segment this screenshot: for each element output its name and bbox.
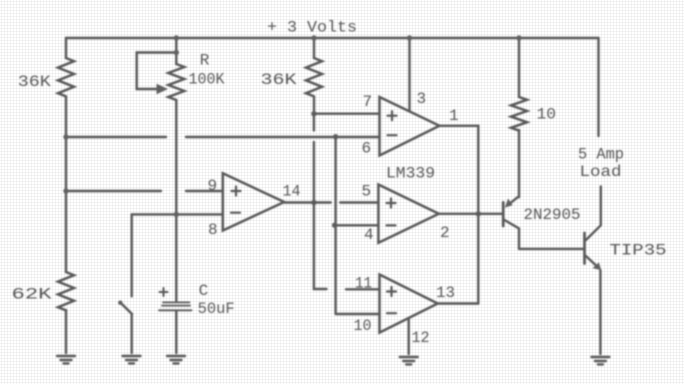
node junction pot-top (174, 35, 179, 40)
svg-text:11: 11 (355, 275, 372, 293)
wire pot top (175, 38, 177, 64)
svg-text:+ 3 Volts: + 3 Volts (267, 19, 357, 37)
svg-text:10: 10 (537, 106, 557, 124)
svg-text:C: C (199, 282, 209, 300)
wire +3V top rail (66, 37, 599, 39)
node junction pin3 rail (407, 35, 412, 40)
wire left rail bottom (65, 310, 67, 353)
transistor Q2 TIP35 base bar (583, 233, 586, 264)
wire vertical 314 hop over pin6 (313, 114, 315, 203)
comparator U2C LM339 (pins 11,10,13,12) (380, 275, 438, 333)
node junction left-rail pin9 (63, 188, 68, 193)
switch S1 contact blob (118, 301, 122, 305)
node junction 36K2 rail (311, 35, 316, 40)
wire 10ohm top (518, 38, 520, 97)
svg-text:5: 5 (362, 183, 372, 201)
node junction pin6 tap (333, 134, 338, 139)
wire 36K2 top (313, 38, 315, 58)
transistor Q1 emitter arrowhead (505, 199, 513, 208)
wire out14 to pin5 (284, 201, 378, 203)
wire out13 (438, 302, 479, 304)
ground left (57, 356, 75, 363)
svg-text:1: 1 (449, 107, 459, 125)
node junction pot-loop (174, 50, 179, 55)
capacitor polarity plus (160, 288, 168, 296)
wire pin11 feed (346, 288, 380, 290)
svg-text:R: R (200, 52, 210, 70)
svg-text:12: 12 (412, 329, 430, 347)
wire load upper (597, 38, 599, 136)
comparator U2B LM339 (pins 5,4,2) (378, 185, 438, 243)
comparator C plus sign (387, 287, 396, 296)
pot wiper arrow (157, 84, 169, 95)
op-amp U1 plus sign (232, 187, 241, 196)
comparator A plus sign (388, 111, 397, 120)
node junction outputs (476, 211, 481, 216)
wire vertical 314 to pin11 corner (314, 203, 327, 290)
wire 10ohm to emitter (518, 130, 520, 197)
resistor R_36K left (58, 58, 74, 96)
ground pin12 (400, 357, 418, 364)
wire Q2 emitter down (599, 270, 601, 354)
svg-text:100K: 100K (189, 71, 225, 89)
ground TIP35 (591, 357, 609, 364)
svg-text:2: 2 (440, 224, 450, 242)
svg-text:TIP35: TIP35 (610, 242, 667, 260)
op-amp U1 minus sign (231, 212, 240, 214)
comparator A minus sign (388, 134, 397, 136)
ground cap (167, 356, 185, 363)
wire pot bottom to cap (175, 100, 177, 301)
transistor Q2 collector lead (586, 187, 601, 241)
svg-text:9: 9 (208, 177, 218, 195)
wire switch lower (130, 314, 132, 353)
wire left rail middle (65, 97, 67, 272)
ground switch (123, 356, 141, 363)
capacitor C 50uF plates (159, 302, 192, 310)
svg-text:7: 7 (363, 93, 373, 111)
resistor R_62K (58, 272, 74, 310)
svg-text:36K: 36K (18, 73, 51, 91)
node junction pin4 (332, 223, 337, 228)
svg-text:14: 14 (283, 183, 301, 201)
transistor Q1 2N2905 emitter lead (508, 197, 518, 205)
wire pot wiper loop (137, 53, 177, 90)
wire net pin8 (switch corner to op-amp minus) (132, 213, 223, 215)
node junction pin8 cap (174, 212, 179, 217)
wire out2 to base (439, 213, 502, 215)
wire 36K2 to pin7 junction (313, 97, 315, 114)
resistor R_10 (511, 97, 527, 131)
svg-text:6: 6 (362, 140, 372, 158)
svg-text:36K: 36K (261, 71, 297, 89)
svg-text:8: 8 (208, 221, 218, 239)
switch S1 lever (121, 303, 132, 314)
comparator U2A LM339 (pins 7,6,1,3) (380, 97, 440, 156)
node junction left-rail pin6 (63, 134, 68, 139)
svg-text:50uF: 50uF (198, 300, 235, 318)
transistor Q1 collector lead (505, 220, 520, 249)
svg-text:LM339: LM339 (386, 165, 435, 183)
wire cap bottom (175, 311, 177, 353)
transistor Q1 base bar (502, 202, 505, 226)
wire Q1 collector to Q2 base (519, 248, 585, 250)
node junction 10ohm rail (516, 35, 521, 40)
potentiometer R 100K (168, 64, 184, 100)
transistor Q2 emitter arrowhead (593, 262, 602, 270)
op-amp U1 (pins 9,8,14) (223, 173, 284, 230)
svg-text:5 Amp: 5 Amp (578, 146, 624, 164)
wire switch upper (130, 214, 132, 296)
wire net pin9 (left rail to op-amp plus) (66, 190, 223, 192)
svg-text:10: 10 (354, 317, 372, 335)
pin 3 supply wire (408, 38, 410, 111)
wire pin7 feed (314, 112, 380, 114)
pin 12 ground wire (408, 319, 410, 355)
wire out1 (439, 126, 478, 304)
svg-text:62K: 62K (12, 286, 53, 304)
wire left rail top (65, 38, 67, 58)
svg-text:2N2905: 2N2905 (524, 206, 581, 224)
comparator B minus sign (387, 224, 396, 226)
wire minus net vertical 335.6 (336, 137, 380, 314)
node junction out14-pin5 (311, 200, 316, 205)
wire pin4 feed (335, 224, 379, 226)
svg-text:13: 13 (436, 284, 455, 302)
comparator B plus sign (387, 199, 396, 208)
transistor Q2 emitter lead (586, 256, 599, 268)
svg-text:Load: Load (580, 163, 622, 181)
wire net pin6 (left rail to comparator A minus) (66, 136, 380, 138)
svg-text:4: 4 (364, 226, 374, 244)
comparator C minus sign (387, 312, 396, 314)
node junction pin7 (311, 111, 316, 116)
resistor R_36K right (306, 58, 322, 96)
svg-text:3: 3 (417, 90, 427, 108)
